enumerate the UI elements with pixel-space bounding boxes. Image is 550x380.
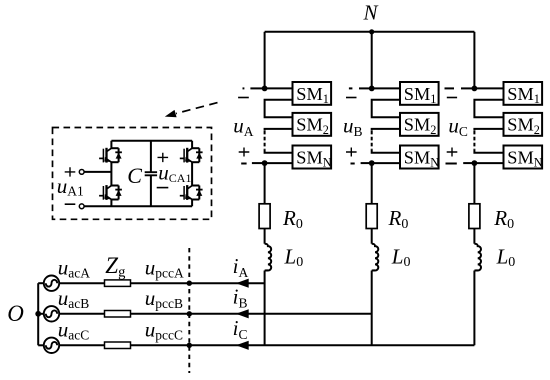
wire leg A inductor to phase line (264, 271, 266, 346)
wire top dc bus N (265, 31, 475, 33)
svg-text:iA: iA (233, 254, 249, 280)
wire SM2 bottom stub (A) (265, 129, 293, 131)
wire SM1 bottom to SM2 top (C) (474, 100, 503, 118)
polarity plus sign of uC (447, 148, 458, 157)
wire SMN bottom terminal (B) (372, 162, 400, 164)
wire R0 to L0 (A) (264, 229, 266, 244)
svg-text:L0: L0 (391, 244, 411, 270)
wire pcc line (row B) (131, 313, 372, 315)
polarity minus sign of uC (447, 97, 457, 99)
svg-text:upccA: upccA (145, 255, 184, 280)
svg-text:C: C (127, 163, 142, 188)
svg-text:upccC: upccC (145, 317, 183, 342)
arrow current iC (236, 341, 249, 350)
svg-text:SMN: SMN (507, 147, 542, 169)
source uacA (38, 282, 44, 284)
wire R0 to L0 (B) (371, 229, 373, 244)
wire R0 to L0 (C) (473, 229, 475, 244)
submodule SM2 (C) (504, 113, 543, 136)
wire source to Zg (row B) (59, 313, 104, 315)
polarity plus dash mark bottom (A) (241, 163, 246, 165)
polarity plus dash mark bottom (C) (446, 163, 457, 165)
source uacB (38, 313, 44, 315)
wire top rail of bridge (111, 140, 192, 142)
node pcc junction (row C) (187, 343, 192, 348)
node A-top junction (262, 86, 268, 92)
impedance Zg (row A) (105, 280, 131, 287)
svg-text:SMN: SMN (296, 147, 331, 169)
wire SM2 bottom stub (B) (372, 129, 400, 131)
wire neutral bus vertical (37, 283, 39, 345)
submodule SMN (B) (400, 146, 439, 169)
svg-text:uacB: uacB (58, 286, 90, 311)
wire SM1 top terminal C (474, 87, 503, 89)
polarity plus dash mark bottom (B) (351, 163, 355, 165)
svg-text:iB: iB (233, 284, 248, 310)
arrow current iA (236, 279, 249, 288)
node N junction (369, 29, 374, 34)
wire SMN bottom terminal (C) (474, 162, 503, 164)
svg-text:uCA1: uCA1 (158, 161, 191, 186)
polarity plus sign of uA (239, 148, 250, 157)
wire SMN top terminal (C) (474, 149, 503, 152)
svg-text:uC: uC (448, 114, 468, 139)
dashed box submodule detail (53, 128, 212, 220)
submodule SM1 (C) (504, 82, 543, 105)
polarity minus sign of uA (238, 97, 249, 99)
node A-bottom junction (262, 160, 268, 166)
wire right leg segments (191, 141, 193, 207)
source uacC (38, 344, 44, 346)
transistor Q1 (IGBT with antiparallel diode) (99, 148, 122, 163)
wire stub top (B) (359, 87, 372, 89)
svg-text:SM1: SM1 (296, 84, 329, 106)
node C-top junction (472, 86, 478, 92)
inductor L0 (B) (372, 244, 379, 271)
wire SM1 top terminal B (372, 87, 400, 89)
svg-text:Zg: Zg (105, 253, 125, 280)
polarity minus dash mark top (B) (349, 87, 353, 89)
svg-text:SMN: SMN (404, 147, 439, 169)
inductor L0 (C) (474, 244, 481, 271)
wire leg C junction to R0 (473, 163, 475, 204)
wire bus C from N bus down to top junction (473, 32, 475, 89)
submodule SMN (A) (293, 146, 332, 169)
wire source to Zg (row C) (59, 344, 104, 346)
wire dashed omitted submodules (A) (264, 131, 266, 150)
svg-text:L0: L0 (284, 244, 304, 270)
submodule SM2 (A) (293, 113, 332, 136)
transistor Q4 (IGBT with antiparallel diode) (180, 185, 203, 200)
wire midpoint terminal (84, 171, 111, 173)
wire bottom rail of bridge (84, 205, 192, 207)
dashed pcc boundary line (188, 248, 190, 373)
submodule SM1 (B) (400, 82, 439, 105)
wire bus A from N bus down to top junction (264, 32, 266, 89)
wire stub bottom (A) (252, 162, 265, 164)
svg-text:uacA: uacA (58, 255, 90, 280)
resistor R0 (B) (366, 204, 377, 229)
node C-bottom junction (472, 160, 478, 166)
wire pcc line (row A) (131, 282, 265, 284)
svg-text:uA1: uA1 (57, 174, 84, 199)
polarity minus dash mark top (C) (445, 87, 455, 89)
wire dashed omitted submodules (B) (371, 131, 373, 150)
wire stub top (A) (250, 87, 264, 89)
wire SMN top terminal (B) (372, 149, 400, 152)
submodule SMN (C) (504, 146, 543, 169)
wire SM1 top terminal A (265, 87, 293, 89)
svg-text:SM2: SM2 (507, 115, 540, 137)
svg-text:O: O (7, 301, 24, 326)
arrow current iB (236, 309, 249, 318)
svg-text:uA: uA (233, 114, 254, 139)
svg-text:R0: R0 (493, 206, 514, 232)
polarity minus of uCA1 (157, 187, 169, 189)
wire leg C inductor to phase line (473, 271, 475, 346)
svg-text:SM1: SM1 (404, 84, 437, 106)
wire stub top (C) (461, 87, 474, 89)
wire stub bottom (C) (463, 162, 474, 164)
svg-text:SM2: SM2 (404, 115, 437, 137)
terminal lower (-) circle (79, 204, 84, 209)
node O junction (35, 311, 41, 317)
wire leg B junction to R0 (371, 163, 373, 204)
node B-bottom junction (369, 160, 375, 166)
svg-text:R0: R0 (388, 206, 409, 232)
svg-text:uacC: uacC (58, 317, 90, 342)
inductor L0 (A) (265, 244, 272, 271)
svg-text:SM1: SM1 (507, 84, 540, 106)
resistor R0 (A) (259, 204, 270, 229)
wire leg B inductor to phase line (371, 271, 373, 346)
transistor Q2 (IGBT with antiparallel diode) (99, 185, 122, 200)
wire stub bottom (B) (361, 162, 372, 164)
svg-text:N: N (363, 1, 379, 25)
polarity plus sign of uB (346, 148, 357, 157)
resistor R0 (C) (469, 204, 480, 229)
svg-text:iC: iC (233, 316, 248, 342)
terminal upper (+) circle (79, 170, 84, 175)
wire bus B from N bus down to top junction (371, 32, 373, 89)
polarity plus of uCA1 (158, 153, 169, 162)
wire SM1 bottom to SM2 top (A) (265, 100, 293, 118)
svg-text:L0: L0 (496, 244, 516, 270)
svg-text:upccB: upccB (145, 286, 183, 311)
dashed callout arrow to submodule detail (176, 103, 218, 114)
impedance Zg (row C) (105, 342, 131, 349)
wire SMN bottom terminal (A) (265, 162, 293, 164)
polarity minus sign of uB (346, 97, 357, 99)
polarity minus dash mark top (A) (243, 87, 245, 89)
wire source to Zg (row A) (59, 282, 104, 284)
svg-text:R0: R0 (282, 206, 303, 232)
impedance Zg (row B) (105, 311, 131, 318)
node pcc junction (row A) (187, 281, 192, 286)
wire leg A junction to R0 (264, 163, 266, 204)
svg-text:SM2: SM2 (296, 115, 329, 137)
wire pcc line (row C) (131, 344, 475, 346)
wire SM2 bottom stub (C) (474, 129, 503, 131)
wire dashed omitted submodules (C) (473, 131, 475, 150)
node pcc junction (row B) (187, 311, 192, 316)
polarity minus of uA1 (65, 203, 76, 205)
wire left leg segments (110, 141, 112, 207)
capacitor C (150, 141, 152, 207)
submodule SM2 (B) (400, 113, 439, 136)
svg-text:uB: uB (343, 114, 363, 139)
transistor Q3 (IGBT with antiparallel diode) (180, 148, 203, 163)
submodule SM1 (A) (293, 82, 332, 105)
wire SMN top terminal (A) (265, 149, 293, 152)
wire SM1 bottom to SM2 top (B) (372, 100, 400, 118)
polarity plus of uA1 (65, 167, 76, 176)
node B-top junction (369, 86, 375, 92)
